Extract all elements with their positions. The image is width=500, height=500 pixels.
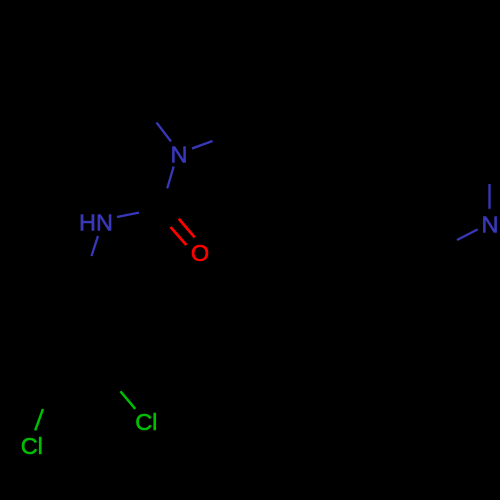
svg-text:N: N bbox=[171, 142, 188, 168]
svg-text:N: N bbox=[482, 212, 499, 238]
svg-text:HN: HN bbox=[79, 210, 113, 236]
svg-text:O: O bbox=[191, 240, 209, 266]
svg-text:Cl: Cl bbox=[21, 433, 43, 459]
svg-text:Cl: Cl bbox=[135, 409, 157, 435]
